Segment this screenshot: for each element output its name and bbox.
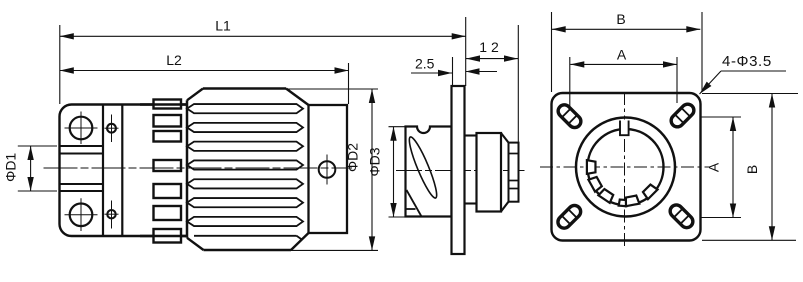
shell top edge xyxy=(203,87,286,89)
extension line L2 right xyxy=(348,63,350,104)
neck behind flange xyxy=(465,134,478,136)
rear shell xyxy=(477,133,502,212)
outer circle xyxy=(576,118,675,217)
dimension 12 xyxy=(466,58,518,60)
dimension A top xyxy=(570,63,677,65)
flange plate xyxy=(552,93,701,241)
rear chamfer bottom xyxy=(501,202,509,212)
dimension L2 xyxy=(60,70,349,72)
contact rectangles column xyxy=(154,100,182,109)
receptacle centerline xyxy=(396,170,525,172)
small hole top xyxy=(107,124,116,133)
svg-text:B: B xyxy=(616,11,625,27)
dimension A right xyxy=(700,116,741,118)
cable hole lines (D1 upper) xyxy=(60,145,104,147)
svg-text:ΦD2: ΦD2 xyxy=(345,143,361,172)
extension line left shared xyxy=(59,25,61,104)
shell top-left chamfer xyxy=(187,89,203,101)
inner circle xyxy=(588,129,664,205)
shell top-right chamfer xyxy=(286,89,309,106)
shell bottom edge xyxy=(204,249,292,251)
mounting slot holes xyxy=(556,102,584,130)
knurled shell left edge xyxy=(186,100,189,238)
shell bottom-left chamfer xyxy=(187,238,204,250)
knurl ribs xyxy=(187,104,303,113)
dimension B top xyxy=(552,28,701,30)
bayonet slot xyxy=(405,135,441,200)
svg-text:B: B xyxy=(744,165,760,174)
shell bottom-right chamfer xyxy=(291,233,309,250)
svg-text:A: A xyxy=(706,162,722,172)
shell smooth section xyxy=(309,105,348,233)
extension line 12 right xyxy=(517,25,519,142)
flange centerline horizontal xyxy=(540,166,710,168)
svg-text:L1: L1 xyxy=(215,18,231,34)
flange centerline vertical xyxy=(624,92,626,246)
bracket divider 1 xyxy=(102,105,104,237)
small hole bottom xyxy=(107,210,115,218)
dimension D1 xyxy=(18,145,57,147)
inner keyway teeth xyxy=(587,160,596,174)
cable hole lines (D1 lower) xyxy=(60,183,104,185)
svg-text:2.5: 2.5 xyxy=(415,56,435,72)
bayonet ramp xyxy=(407,190,422,217)
svg-text:4-Φ3.5: 4-Φ3.5 xyxy=(722,53,772,70)
dimension L1 xyxy=(60,35,466,37)
screw hole top xyxy=(70,117,93,140)
rear chamfer top xyxy=(501,133,509,143)
dimension D2 xyxy=(286,88,378,90)
top keyway slot xyxy=(620,120,629,136)
plug centerline xyxy=(44,167,353,169)
svg-text:ΦD1: ΦD1 xyxy=(3,153,19,182)
redraw bracket top/bottom edges over contacts xyxy=(140,103,187,105)
plug bracket body outline xyxy=(60,105,188,237)
screw hole bottom xyxy=(70,204,93,227)
knurl partial bottom rib xyxy=(194,235,297,237)
svg-text:ΦD3: ΦD3 xyxy=(367,147,383,176)
mounting flange xyxy=(452,86,465,254)
dimension D3 xyxy=(389,126,407,128)
bracket divider 2 xyxy=(121,105,123,237)
receptacle body xyxy=(406,127,452,217)
extension line flange right / L1 right xyxy=(465,17,467,86)
dimension B right xyxy=(702,93,798,95)
svg-text:L2: L2 xyxy=(166,52,182,68)
shell set-screw hole xyxy=(319,161,336,178)
svg-text:A: A xyxy=(617,47,627,63)
svg-text:1 2: 1 2 xyxy=(479,39,499,55)
rear end section xyxy=(509,143,519,202)
extension line flange left xyxy=(452,57,454,86)
